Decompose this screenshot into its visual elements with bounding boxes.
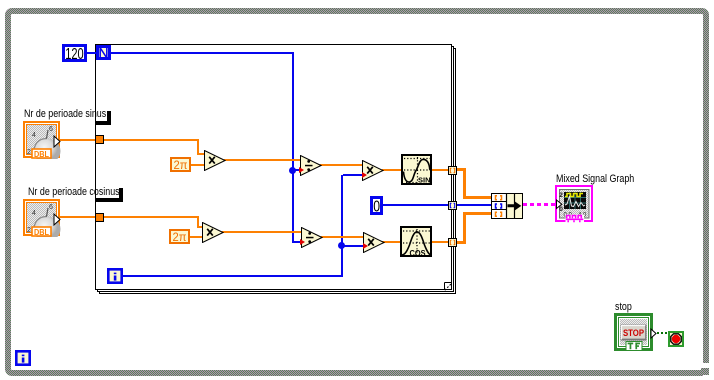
svg-text:2: 2 — [559, 192, 563, 199]
svg-text:2: 2 — [27, 227, 31, 234]
svg-text:4: 4 — [32, 210, 36, 217]
svg-text:DBL: DBL — [34, 149, 49, 159]
svg-text:SIN: SIN — [418, 176, 431, 185]
svg-text:6: 6 — [49, 204, 53, 211]
svg-text:120: 120 — [65, 46, 84, 62]
svg-text:DBL: DBL — [34, 227, 49, 237]
svg-text:STOP: STOP — [623, 328, 644, 338]
svg-text:COS: COS — [410, 249, 427, 257]
svg-text:6: 6 — [49, 126, 53, 133]
svg-text:0: 0 — [373, 199, 380, 216]
svg-text:2π: 2π — [174, 160, 188, 172]
svg-text:2π: 2π — [173, 232, 187, 244]
svg-text:4: 4 — [32, 132, 36, 139]
svg-text:2: 2 — [27, 149, 31, 156]
